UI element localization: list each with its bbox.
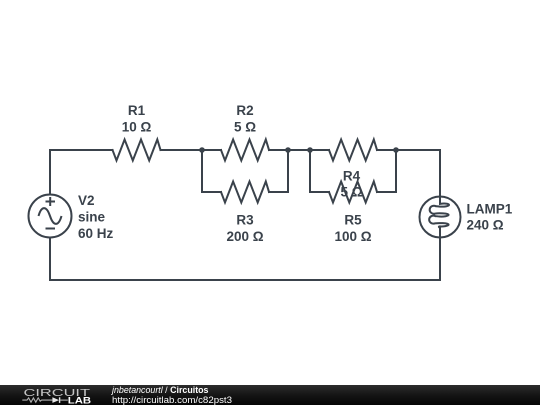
node D junction — [393, 147, 399, 153]
wire group1 left vertical — [201, 150, 203, 192]
resistor R2 — [221, 140, 269, 161]
wire top left from V2 to R1 — [50, 150, 113, 195]
wire node D to LAMP1 top — [377, 150, 440, 197]
wire group2 right vertical — [395, 150, 397, 192]
svg-text:200 Ω: 200 Ω — [226, 229, 263, 244]
wire group1 right vertical — [287, 150, 289, 192]
logo diode — [52, 397, 59, 403]
svg-text:60 Hz: 60 Hz — [78, 226, 114, 241]
voltage source V2 — [29, 195, 72, 238]
resistor R1 — [113, 140, 161, 161]
svg-text:R2: R2 — [236, 103, 253, 118]
node C junction — [307, 147, 313, 153]
svg-text:240 Ω: 240 Ω — [467, 217, 504, 232]
lamp LAMP1 — [420, 197, 461, 238]
svg-text:LAMP1: LAMP1 — [467, 201, 513, 216]
wire LAMP1 bottom to bottom rail — [439, 238, 441, 281]
resistor R5 — [329, 182, 377, 203]
wire group1 bottom right stub — [269, 191, 288, 193]
resistor R4 — [329, 140, 377, 161]
resistor R3 — [221, 182, 269, 203]
svg-text:R3: R3 — [236, 212, 254, 227]
svg-text:5 Ω: 5 Ω — [234, 119, 256, 134]
svg-text:sine: sine — [78, 209, 106, 224]
wire node B to node C — [269, 149, 329, 151]
node B junction — [285, 147, 291, 153]
wire group2 bottom left stub — [310, 191, 329, 193]
svg-text:LAB: LAB — [68, 396, 92, 405]
footer bar — [0, 385, 540, 405]
svg-text:10 Ω: 10 Ω — [122, 119, 152, 134]
wire group2 left vertical — [309, 150, 311, 192]
logo resistor squiggle — [22, 398, 52, 402]
svg-text:5 Ω: 5 Ω — [340, 185, 362, 200]
svg-text:R1: R1 — [128, 103, 146, 118]
wire R1 to node A — [161, 149, 222, 151]
svg-text:V2: V2 — [78, 193, 95, 208]
svg-text:R5: R5 — [344, 212, 362, 227]
wire V2 bottom to bottom rail — [49, 238, 51, 281]
wire bottom rail — [50, 279, 440, 281]
svg-text:R4: R4 — [343, 168, 361, 183]
wire group2 bottom right stub — [377, 191, 396, 193]
node A junction — [199, 147, 205, 153]
svg-text:100 Ω: 100 Ω — [334, 229, 371, 244]
svg-text:jnbetancourtl / Circuitos: jnbetancourtl / Circuitos — [111, 385, 209, 395]
svg-text:http://circuitlab.com/c82pst3: http://circuitlab.com/c82pst3 — [112, 395, 232, 405]
wire group1 bottom left stub — [202, 191, 221, 193]
